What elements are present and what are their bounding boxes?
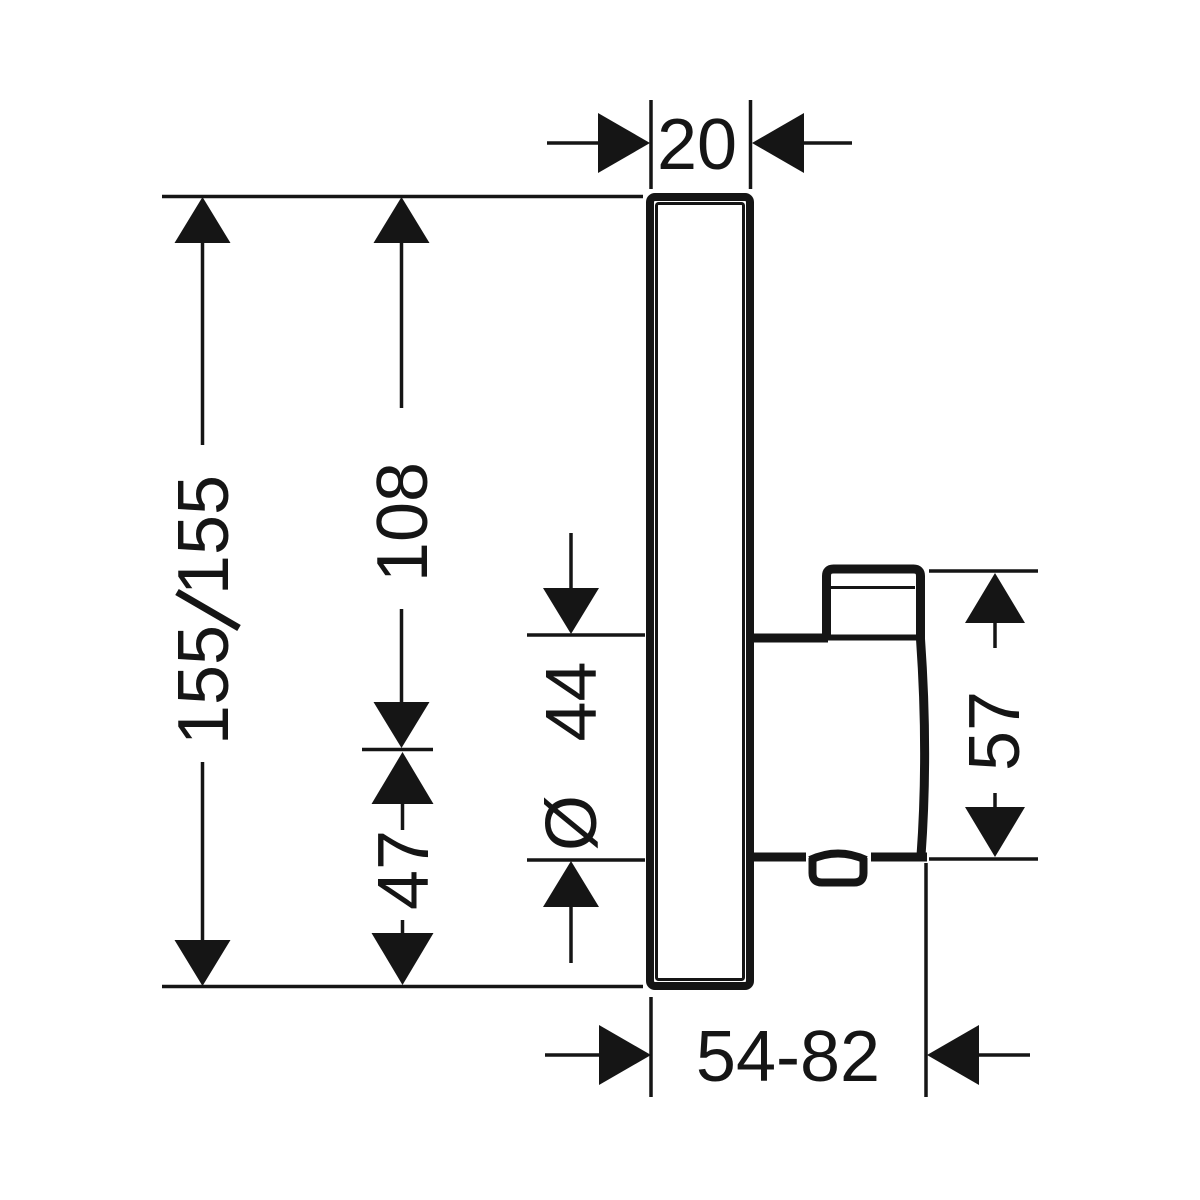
valve body top edge [750, 634, 828, 643]
valve body thin top line through cartridge [826, 635, 918, 641]
valve body fill [754, 642, 925, 854]
dimension 54-82 left extension line [649, 997, 653, 1097]
cartridge outline [827, 569, 921, 640]
dimension 47 arrow down [372, 933, 434, 985]
dimension 47 arrow up [372, 752, 434, 804]
svg-text:54-82: 54-82 [696, 1017, 880, 1097]
dimension 57 arrow up [965, 573, 1025, 623]
diameter 44 upper tick line [527, 633, 645, 637]
valve body bottom edge [750, 853, 927, 862]
diameter 44 lower tail [569, 907, 573, 963]
dimension 57 bottom extension line [929, 857, 1038, 861]
dimension 57 arrow down [965, 807, 1025, 857]
retaining tab outline [813, 858, 864, 883]
dimension 54-82 right tail [979, 1053, 1030, 1057]
top reference line (plate top level) [162, 195, 643, 199]
tick line between 108 and 47 [362, 748, 433, 752]
diameter 44 arrow up [543, 861, 599, 907]
cartridge fill [826, 569, 920, 638]
dimension 108 arrow down [374, 702, 430, 748]
dimension 54-82 right arrow [927, 1025, 979, 1085]
dimension 20 right extension line [749, 100, 753, 189]
dimension 108 arrow up [374, 197, 430, 243]
dimension 155/155 arrow up [175, 197, 231, 243]
dimension 20 left extension line [649, 100, 653, 189]
svg-text:155: 155 [164, 475, 244, 595]
svg-text:20: 20 [657, 105, 737, 185]
dimension 155/155 lower line [201, 762, 205, 941]
svg-text:Ø: Ø [532, 795, 612, 851]
svg-text:108: 108 [363, 462, 443, 582]
diameter 44 upper tail [569, 533, 573, 592]
cartridge inner line [831, 586, 915, 589]
dimension 57 top extension line [929, 569, 1038, 573]
valve body right edge [921, 639, 925, 856]
svg-text:57: 57 [955, 691, 1035, 771]
dimension 54-82 right extension line [924, 863, 928, 1097]
plate fill [646, 193, 754, 990]
dimension 108 upper line [400, 243, 404, 408]
dimension 20 left arrow [598, 113, 650, 173]
svg-text:44: 44 [532, 661, 612, 741]
plate outer outline [650, 197, 750, 986]
plate inner outline [657, 204, 744, 980]
svg-text:155: 155 [164, 625, 244, 745]
retaining tab fill [806, 849, 871, 888]
dimension 54-82 left arrow [599, 1025, 651, 1085]
bottom reference line (plate bottom level) [162, 985, 643, 989]
diameter 44 arrow down [543, 588, 599, 634]
diameter 44 lower tick line [527, 858, 645, 862]
dimension 20 right tail [804, 141, 852, 145]
svg-text:47: 47 [364, 830, 444, 910]
dimension 57 lower tail [993, 793, 997, 807]
retaining tab arc [810, 854, 866, 861]
dimension 20 right arrow [752, 113, 804, 173]
dimension 47 lower line [401, 920, 405, 941]
dimension 155/155 arrow down [175, 940, 231, 986]
dimension 57 upper tail [993, 623, 997, 648]
dimension 47 upper line [401, 804, 405, 830]
dimension 54-82 left tail [545, 1053, 599, 1057]
dimension 108 lower line [400, 609, 404, 704]
dimension 155/155 slash [177, 592, 239, 628]
dimension 20 left tail [547, 141, 598, 145]
dimension 155/155 upper line [201, 243, 205, 445]
